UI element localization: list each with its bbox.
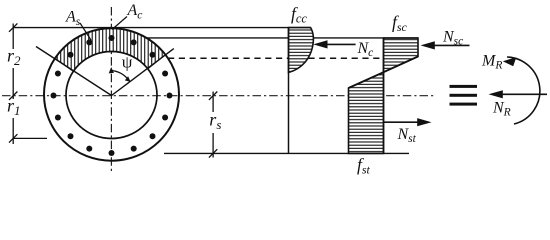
svg-text:r2: r2 xyxy=(7,45,21,68)
svg-text:ψ: ψ xyxy=(122,52,133,71)
svg-text:Ac: Ac xyxy=(127,2,143,22)
svg-text:Nsc: Nsc xyxy=(442,29,463,48)
svg-text:NR: NR xyxy=(492,100,511,119)
svg-text:Nst: Nst xyxy=(397,126,417,145)
svg-text:fsc: fsc xyxy=(392,12,408,34)
svg-text:As: As xyxy=(65,9,81,29)
svg-text:Nc: Nc xyxy=(357,40,374,59)
svg-text:fcc: fcc xyxy=(291,4,307,26)
svg-text:r1: r1 xyxy=(7,96,21,119)
svg-text:rs: rs xyxy=(209,110,221,132)
svg-text:MR: MR xyxy=(481,53,502,72)
svg-text:fst: fst xyxy=(357,155,371,177)
